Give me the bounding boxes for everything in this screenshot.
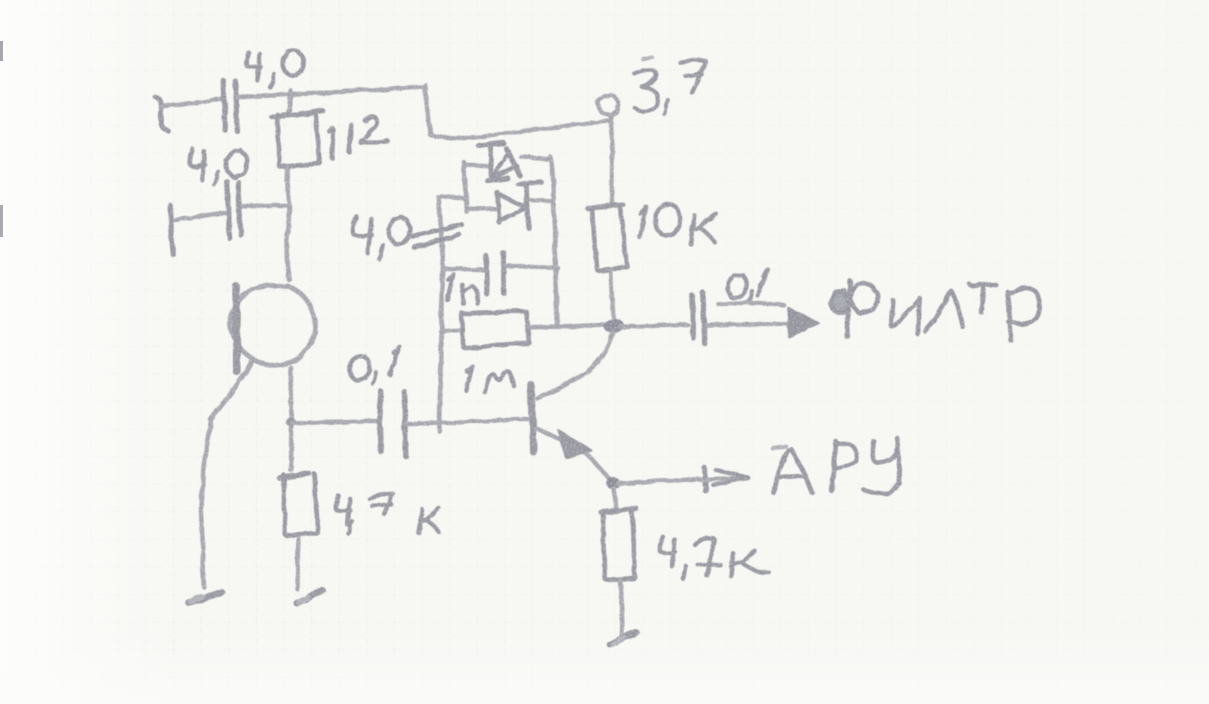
wire Q1 to node B bbox=[291, 368, 292, 470]
capacitor C6 0,1 bbox=[692, 293, 705, 343]
diode D1 bbox=[479, 143, 551, 181]
label R1 value 1k bbox=[329, 117, 388, 158]
capacitor C5 0,1 bbox=[380, 391, 406, 456]
resistor R3 1M bbox=[462, 311, 530, 348]
wire left rail bbox=[439, 196, 467, 432]
capacitor C2 4,0 bbox=[170, 181, 287, 255]
label C1 value 4,0 bbox=[246, 50, 304, 87]
capacitor C4 1n bbox=[443, 252, 558, 294]
capacitor C1 input 4,0 bbox=[155, 80, 237, 131]
wire C6 to filter arrow bbox=[706, 322, 786, 327]
wire node D to R5 bbox=[614, 489, 616, 510]
wire R1 to Q1 bbox=[287, 167, 290, 279]
capacitor C3 4,0 bbox=[413, 224, 462, 247]
label C5 value 0,1 bbox=[349, 347, 400, 383]
wire Q1 emitter down bbox=[201, 420, 211, 587]
wire R5 to ground bbox=[620, 580, 622, 636]
wire right rail bbox=[551, 157, 558, 325]
wire node C to C6 bbox=[620, 325, 687, 327]
label C3 value 4,0 bbox=[353, 216, 411, 259]
label R5 value 4,7k bbox=[660, 537, 769, 578]
ground G2 bbox=[297, 590, 322, 604]
transistor Q2 collector bbox=[537, 332, 613, 398]
wire R2 to ground bbox=[297, 539, 298, 589]
arrow filter output bbox=[788, 308, 819, 337]
transistor Q2 emitter bbox=[536, 428, 612, 481]
node C junction bbox=[603, 318, 625, 335]
terminal 3,7 bbox=[597, 95, 618, 206]
arrow AGC output bbox=[700, 467, 748, 491]
ground G3 bbox=[610, 632, 636, 645]
transistor Q2 base bar bbox=[531, 385, 533, 452]
resistor R1 1k bbox=[272, 111, 323, 167]
wire C5 to Q2 base bbox=[407, 419, 527, 424]
label C2 value 4,0 bbox=[189, 149, 247, 185]
resistor R5 4,7k bbox=[601, 508, 636, 580]
label C4 value 1n bbox=[447, 274, 478, 304]
resistor R4 10k bbox=[588, 205, 627, 271]
ground G1 bbox=[188, 592, 221, 602]
wire R4 to node C bbox=[611, 271, 614, 320]
wire node B to C5 bbox=[292, 421, 377, 423]
wire top supply bbox=[236, 87, 425, 97]
scan edge artifacts bbox=[0, 41, 3, 61]
transistor Q1 bbox=[211, 285, 316, 419]
wire left to R3 bbox=[441, 330, 462, 332]
label Filter (Филтр) bbox=[830, 281, 1039, 340]
node D junction bbox=[606, 477, 620, 489]
label R2 value 4,7k bbox=[336, 494, 439, 534]
wire node to R1 bbox=[289, 91, 291, 114]
label R4 value 10k bbox=[639, 204, 716, 245]
label 3,7 bbox=[634, 57, 705, 114]
wire diode loop left bbox=[464, 162, 490, 212]
resistor R2 4,7k bbox=[280, 473, 318, 535]
diode D2 bbox=[470, 182, 551, 229]
wire node D to AGC arrow bbox=[618, 479, 702, 483]
node B junction bbox=[286, 418, 296, 427]
label C6 value 0,1 bbox=[718, 270, 784, 305]
wire supply step bbox=[425, 85, 608, 138]
wire R3 to node C bbox=[529, 325, 607, 327]
label AGC (АРУ) bbox=[772, 438, 899, 494]
label R3 value 1M bbox=[466, 366, 513, 392]
